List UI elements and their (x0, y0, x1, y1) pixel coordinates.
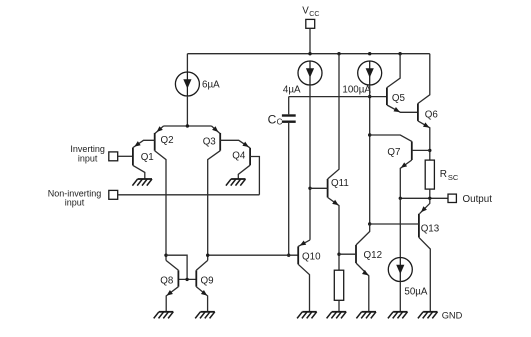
wire Q12 base (339, 253, 356, 255)
transistor Q13 (418, 214, 420, 238)
svg-text:Q6: Q6 (425, 110, 439, 121)
wire Q1 collector (133, 165, 145, 179)
node inverting input terminal (109, 152, 118, 161)
emitter arrow Q11 (332, 200, 338, 206)
svg-text:6µA: 6µA (202, 80, 220, 91)
wire resistor to ground (338, 300, 340, 312)
wire Q9 collector (196, 260, 207, 270)
node output terminal (448, 194, 456, 202)
wire output to 50uA (399, 198, 401, 257)
emitter arrow Q10 (300, 241, 307, 246)
wire Q3 emitter slope (212, 126, 220, 133)
junction Q6 emitter-Q7 base (428, 149, 431, 152)
wire Q11 emitter (328, 197, 339, 270)
junction rail-Q11 (337, 52, 340, 55)
wire inverting input to Q1 base (118, 155, 133, 157)
ground Q13 (418, 312, 438, 319)
ground Q8 (154, 312, 174, 319)
ground resistor (327, 312, 347, 319)
wire Q6 collector (418, 54, 430, 104)
svg-text:V: V (302, 5, 309, 16)
label 50uA (404, 286, 428, 297)
current source 4uA (298, 61, 322, 85)
svg-text:Q10: Q10 (302, 252, 321, 263)
wire Q3 collector (208, 151, 221, 261)
wire Q8-Q9 base link (178, 278, 196, 280)
wire 50uA to ground (399, 282, 401, 312)
emitter arrow Q8 (167, 290, 173, 296)
junction output-Rsc (428, 197, 431, 200)
wire Q11 base (310, 187, 328, 189)
wire Q13 base (370, 223, 419, 225)
junction tail node (186, 124, 189, 127)
wire Q5 emitter (387, 105, 418, 112)
wire Q9 emitter (196, 287, 207, 312)
junction Q11 base node (308, 187, 311, 190)
junction 100uA-Q13 base (368, 222, 371, 225)
svg-text:Q2: Q2 (161, 135, 174, 146)
label Cc (268, 112, 283, 126)
label Non-inverting input (48, 188, 102, 207)
svg-text:Q1: Q1 (141, 152, 154, 163)
svg-text:Q5: Q5 (392, 93, 406, 104)
resistor Q11 emitter (334, 270, 343, 300)
svg-text:C: C (277, 117, 283, 126)
wire 4uA output (309, 85, 311, 240)
svg-text:Q11: Q11 (331, 178, 349, 189)
wire Q12 collector (356, 224, 370, 245)
transistor Q6 (417, 104, 419, 121)
svg-text:Q9: Q9 (201, 275, 214, 286)
transistor Q4 (249, 148, 251, 165)
wire Q7 collector (370, 135, 412, 141)
wire Q7 base (412, 149, 430, 151)
svg-text:Q13: Q13 (421, 223, 440, 234)
junction output-Q7 emitter (399, 197, 402, 200)
label Rsc (440, 169, 459, 182)
transistor Q3 (219, 133, 221, 151)
junction 100uA-Q7 collector (368, 133, 371, 136)
label Q10 (302, 252, 321, 263)
label Q8 (160, 275, 174, 286)
wire top rail (187, 53, 429, 55)
resistor Rsc (425, 160, 434, 189)
wire Q10 collector (298, 264, 309, 312)
svg-text:GND: GND (442, 310, 463, 320)
label 100uA (342, 85, 371, 96)
svg-text:Q12: Q12 (364, 250, 383, 261)
junction 100uA-Q5 base (368, 95, 371, 98)
wire non-inverting input to Q4 base (118, 194, 260, 196)
wire output line (400, 197, 448, 199)
transistor Q1 (132, 148, 134, 166)
wire Q12 emitter (356, 263, 369, 312)
wire Q11 collector (328, 54, 339, 179)
svg-text:4µA: 4µA (283, 85, 301, 96)
svg-text:C: C (268, 112, 277, 126)
ground Q9 (195, 312, 215, 319)
emitter arrow Q2 (157, 126, 163, 132)
wire 100uA output (369, 85, 371, 224)
svg-text:Q4: Q4 (232, 150, 246, 161)
svg-text:Output: Output (463, 194, 493, 205)
junction rail-100uA (368, 52, 371, 55)
wire Q4 base (250, 157, 259, 195)
node non-inverting input terminal (109, 190, 118, 199)
svg-text:R: R (440, 169, 447, 180)
transistor Q7 (411, 141, 413, 160)
label Q6 (425, 110, 439, 121)
junction Q3-Q9 collector (206, 254, 209, 257)
wire rail to 6uA (186, 54, 188, 72)
wire Q4 emitter (220, 140, 250, 148)
wire Q10 emitter (298, 240, 310, 247)
wire Q5 base net (289, 96, 387, 98)
emitter arrow Q1 (134, 141, 140, 147)
label Q3 (203, 136, 217, 147)
label Vcc (302, 5, 319, 18)
label Q12 (364, 250, 383, 261)
wire Vcc stem (309, 28, 311, 53)
junction Q2-Q8 collector (164, 254, 167, 257)
svg-text:CC: CC (309, 11, 319, 18)
wire Q13 emitter (420, 198, 430, 213)
transistor Q5 (386, 88, 388, 105)
emitter arrow Q9 (201, 290, 207, 296)
emitter arrow Q7 (401, 162, 407, 168)
transistor Q8 (177, 270, 179, 286)
label Inverting input (70, 144, 105, 163)
wire Q8 collector-base link (166, 255, 187, 279)
junction Cc-Q10 base (287, 254, 290, 257)
wire Q4 collector (238, 165, 250, 179)
current source 6uA (175, 72, 199, 96)
label Q7 (387, 147, 400, 158)
svg-text:input: input (65, 198, 85, 208)
wire Q2 emitter slope (155, 126, 163, 133)
wire Q8 collector (166, 260, 178, 270)
svg-text:SC: SC (448, 173, 459, 182)
ground Q12 (356, 312, 376, 319)
transistor Q12 (355, 245, 357, 263)
label Q5 (392, 93, 406, 104)
svg-text:Q3: Q3 (203, 136, 217, 147)
svg-text:input: input (78, 153, 98, 163)
wire Q7 emitter (400, 160, 412, 198)
label Q2 (161, 135, 174, 146)
junction Q11 emitter-Q12 base (337, 253, 340, 256)
capacitor Cc (282, 116, 296, 122)
wire 6uA to diff pair (186, 96, 188, 126)
wire Q1 emitter (133, 140, 155, 147)
transistor Q2 (154, 133, 156, 151)
ground 50uA (388, 312, 408, 319)
current source 100uA (358, 61, 382, 85)
label Q1 (141, 152, 154, 163)
wire Rsc to output (429, 189, 431, 198)
emitter arrow Q12 (362, 270, 368, 276)
wire Q6 emitter (418, 121, 430, 160)
label 4uA (283, 85, 301, 96)
wire Cc top lead (288, 97, 290, 115)
current source 50uA (388, 258, 412, 282)
emitter arrow Q13 (421, 206, 427, 212)
label 6uA (202, 80, 220, 91)
label GND (442, 310, 463, 320)
emitter arrow Q5 (394, 107, 401, 112)
junction rail-Q5 (398, 52, 401, 55)
emitter arrow Q6 (423, 122, 429, 127)
label Q13 (421, 223, 440, 234)
wire Cc bottom lead (288, 123, 290, 255)
svg-text:Q7: Q7 (387, 147, 400, 158)
transistor Q10 (297, 246, 299, 264)
junction mirror bases (185, 278, 188, 281)
wire Q2 collector (155, 151, 166, 261)
transistor Q9 (195, 270, 197, 286)
label Q4 (232, 150, 246, 161)
transistor Q11 (327, 179, 329, 197)
ground Q10 (297, 312, 317, 319)
label Output (463, 194, 493, 205)
emitter arrow Q3 (212, 126, 218, 132)
ground Q1 (132, 179, 152, 186)
wire Q9 collector to Q10 base (208, 254, 299, 256)
emitter arrow Q4 (242, 142, 248, 147)
wire Q5 collector (387, 54, 400, 88)
svg-text:50µA: 50µA (404, 286, 428, 297)
svg-text:Q8: Q8 (160, 275, 174, 286)
label Q11 (331, 178, 349, 189)
wire Q8 emitter (166, 287, 178, 312)
ground Q4 (226, 179, 246, 186)
svg-text:100µA: 100µA (342, 85, 371, 96)
junction rail-4uA (308, 52, 311, 55)
wire Q13 collector (419, 237, 430, 311)
label Q9 (201, 275, 214, 286)
node Vcc terminal (306, 19, 315, 28)
wire diff-pair emitter bus (164, 125, 212, 127)
